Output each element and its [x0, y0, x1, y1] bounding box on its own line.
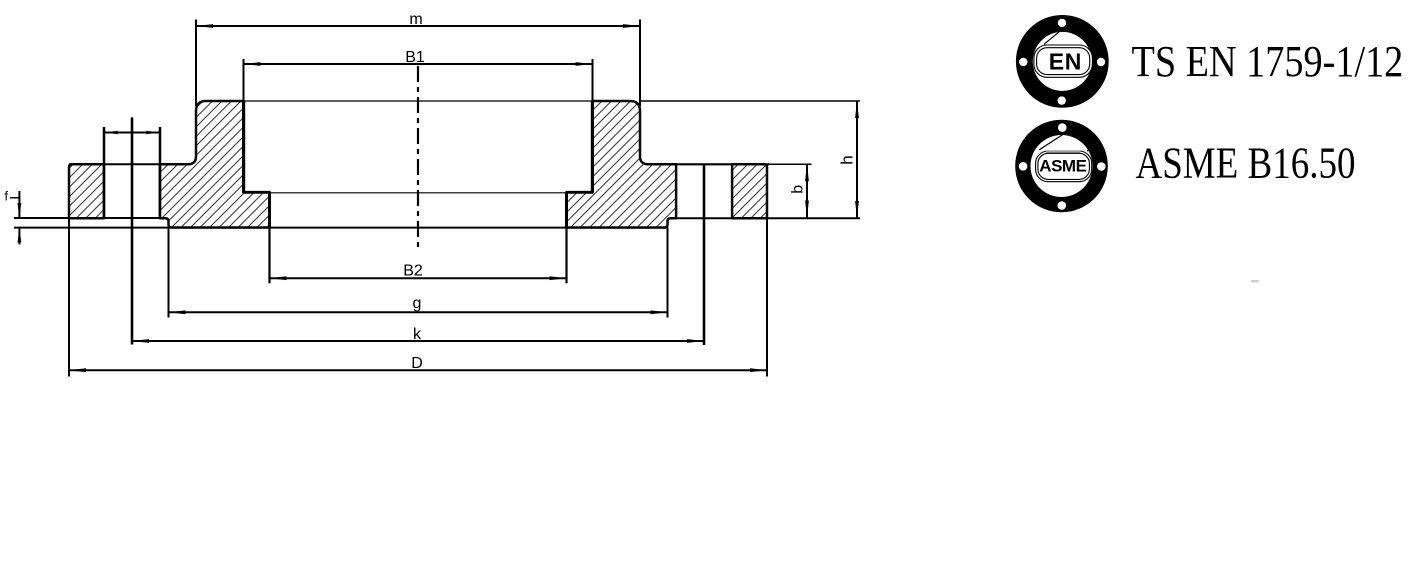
svg-text:D: D [411, 355, 423, 372]
EN logo ring [1016, 15, 1109, 108]
flange underside left with f extension [14, 217, 165, 219]
left bolt hole edge left [103, 127, 106, 218]
counterbore ledge thick left [243, 191, 271, 194]
ASME logo bolt holes [1058, 123, 1067, 132]
plate top face left [69, 163, 190, 165]
svg-text:B1: B1 [405, 49, 425, 66]
hub top face line across bore [244, 100, 593, 102]
raised face bottom with f extension [14, 227, 666, 229]
ASME stadium badge [1036, 151, 1092, 182]
EN logo leader line [1044, 27, 1065, 44]
D extension left [68, 218, 70, 376]
dimension f (raised face height) [18, 191, 20, 218]
ASME logo ring [1015, 120, 1108, 213]
ASME logo leader line [1039, 134, 1063, 150]
counterbore ledge line across bore [270, 192, 567, 194]
m extension left / hub edge [195, 20, 197, 107]
svg-text:m: m [409, 11, 422, 28]
bore edge B1 right extension [592, 59, 594, 101]
svg-text:ASME: ASME [1039, 156, 1086, 175]
svg-text:k: k [413, 326, 422, 343]
g extension right [667, 228, 669, 318]
svg-text:B2: B2 [403, 263, 423, 280]
bore edge B1 left extension [243, 59, 245, 101]
svg-text:EN: EN [1049, 48, 1082, 74]
dimension k line [132, 340, 704, 342]
left bolt hole edge right [159, 127, 162, 218]
dimension D line [69, 369, 767, 371]
bolt hole diameter dimension [104, 132, 160, 134]
hatch region: left outer flange block [69, 164, 104, 218]
D extension right [766, 218, 768, 376]
dimension B2 line [270, 277, 567, 279]
left bolt centerline / k extension [131, 117, 134, 344]
svg-text:h: h [838, 155, 857, 164]
counterbore ledge thick right [566, 191, 594, 194]
hatch region: left inner flange/hub section [160, 101, 270, 228]
vertical centerline (dash-dot) [417, 66, 419, 252]
svg-text:f: f [5, 189, 9, 203]
dimension h (hub height) [856, 101, 858, 218]
dimension b (plate thickness) [806, 164, 808, 217]
faint smudge mark [1251, 280, 1259, 282]
hatch region: right outer flange block [732, 164, 767, 218]
hatch region: right inner flange/hub section [567, 101, 677, 228]
svg-text:ASME B16.50: ASME B16.50 [1136, 139, 1356, 188]
right bolt centerline / k extension [703, 164, 706, 345]
m extension right / hub edge [639, 20, 641, 107]
svg-text:TS EN 1759-1/12: TS EN 1759-1/12 [1132, 37, 1404, 86]
dimension g line [169, 311, 668, 313]
g extension left [168, 228, 170, 318]
plate top face right + b extension [646, 163, 769, 165]
B2 extension right [565, 192, 568, 228]
svg-text:b: b [790, 185, 807, 194]
hub top face extension for h (right) [640, 100, 860, 102]
B2 extension left [268, 192, 271, 228]
flange underside right with b/h extension [671, 217, 860, 219]
dimension m line [196, 25, 640, 27]
svg-text:g: g [413, 295, 422, 312]
EN stadium badge [1034, 45, 1093, 77]
dimension B1 line [244, 63, 593, 65]
EN logo bolt holes [1058, 19, 1066, 27]
